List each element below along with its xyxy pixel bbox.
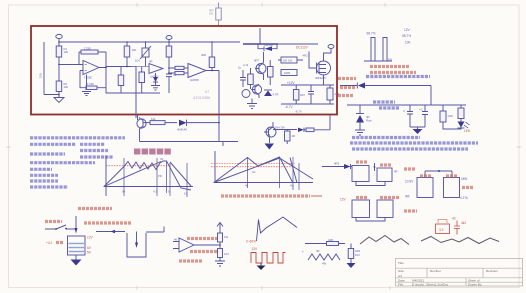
label 98.7% [367,32,376,36]
resistor R16 [285,130,296,145]
resistor R14 [293,85,305,104]
svg-text:10k: 10k [64,85,69,89]
battery BT1 [68,236,86,255]
winding W2 [377,165,392,182]
blue note row [352,136,420,139]
wire mid rail [281,84,334,86]
svg-text:43: 43 [452,217,456,221]
chart1 waveform [104,161,191,190]
chart2 axis [214,151,314,183]
blue note output ripple [366,75,430,78]
svg-text:4.1k: 4.1k [243,63,249,67]
svg-text:Size: Size [398,269,404,273]
svg-text:24R: 24R [448,114,453,118]
diode D2 IN4148 [258,43,277,51]
svg-text:+4.2: +4.2 [46,241,53,245]
resistor R17 [304,115,330,132]
wire tap to op-amp [59,64,83,66]
resistor R15 [327,85,339,104]
svg-text:4R9: 4R9 [334,162,340,166]
wire load loop [443,105,461,129]
label 4W filter [322,262,327,266]
label title (violet) [134,149,171,155]
svg-text:4R7: 4R7 [254,59,260,63]
diode D-W1 feed [322,162,352,170]
diode D4 [356,105,372,130]
chart2 red dashed levels [211,164,295,167]
blue note row 2 [350,141,478,144]
svg-text:104: 104 [135,59,140,63]
label EN [388,58,392,62]
wire drop x219 [218,115,220,142]
ground (R21) [215,261,225,266]
resistor R20 [218,233,229,249]
svg-text:15V: 15V [39,73,43,78]
svg-text:Number: Number [430,269,441,273]
ground (op-amp) [82,75,91,96]
chart2 waveform [214,157,313,183]
red capacitor [452,217,466,235]
svg-text:IN4148: IN4148 [264,43,273,47]
label DC112V (red) [296,46,309,50]
svg-text:4W: 4W [322,262,327,266]
diode D-row 4N4148 [177,120,219,132]
svg-text:4R: 4R [316,249,320,253]
svg-text:40: 40 [245,184,249,188]
LED D5 [458,122,471,134]
note list line 8 [30,185,68,188]
label 4R filter [316,249,320,253]
transistor Q4 [137,115,146,142]
svg-text:1W: 1W [209,12,213,16]
resistor R5 [124,42,136,67]
svg-text:4R: 4R [394,170,398,174]
svg-text:File:: File: [398,283,404,287]
capacitor C5 [419,105,428,127]
resistor R4 (lower feedback) [80,71,106,90]
power VCC1 [56,34,62,46]
svg-text:4k2: 4k2 [461,221,466,225]
wire stage2 input [131,66,149,68]
jar electrode [96,227,164,258]
wire [58,57,60,81]
svg-text:98.7%: 98.7% [367,32,376,36]
svg-text:Revision: Revision [486,269,498,273]
svg-text:4.17k: 4.17k [460,196,468,200]
square wave (red) [251,253,286,264]
label 12V [404,28,411,32]
capacitor C3 [308,85,314,104]
resistor R6 [118,67,124,94]
wire gate drive [303,52,317,69]
chart1 tick labels [122,157,188,196]
op-amp U3 [188,64,206,83]
ground (filter) [347,263,356,268]
blue link label 2 [379,106,399,109]
capacitor C1 [166,67,177,94]
red label +4.2 [46,241,64,245]
wire top rail [58,41,240,43]
chart1 gridlines [124,158,187,197]
svg-text:100 1W: 100 1W [283,59,293,63]
svg-text:1W: 1W [224,235,229,239]
svg-text:4V: 4V [160,157,164,161]
resistor R10 [268,60,274,85]
svg-text:46R: 46R [201,53,206,57]
capacitor C4 [403,105,413,127]
wire W3-W4 bottom [356,218,385,222]
svg-text:A4: A4 [398,274,402,278]
op-amp U1 TL082 [83,61,99,80]
svg-text:12V: 12V [252,247,259,251]
wire left 15V rail [39,42,60,95]
svg-text:LED: LED [464,129,471,133]
waveform zigzag left [360,236,409,245]
wire U4 output [194,244,221,246]
note list line 3b [80,155,113,158]
ground (battery) [71,255,82,266]
power arrow (rail) [217,223,223,234]
svg-text:Rule: Rule [366,119,372,123]
blue note row 3 [352,147,468,150]
capacitor C2 [238,66,246,88]
wire U3 output [206,70,219,114]
diode D6 [340,83,431,106]
diode D-out [298,128,304,132]
note list line 6 [30,174,58,177]
svg-text:10k: 10k [64,50,69,54]
resistor R7 [139,67,145,94]
note list line 7 [30,179,58,182]
power VCC2 [166,36,172,47]
capacitor C-trim 104 [135,42,151,67]
red label charger right [462,186,474,189]
svg-text:MW: MW [462,177,468,181]
resistor R22 [327,238,339,246]
resistor R1 [56,46,68,57]
label AT013396 (violet) [193,96,210,100]
resistor R9 [201,42,215,71]
resistor R23 [348,244,360,264]
label 98.7% right [402,34,411,38]
winding W1 [352,162,369,182]
red note (ripple) [370,71,416,74]
svg-text:4R: 4R [149,60,153,64]
svg-text:IRF3205: IRF3205 [315,76,326,80]
svg-text:0~60%: 0~60% [246,240,256,244]
resistor R12 box [278,57,303,63]
svg-text:10.5V: 10.5V [405,180,414,184]
svg-text:4): 4) [290,184,293,188]
red note U4 top [187,237,217,240]
svg-text:10k: 10k [132,48,137,52]
svg-text:AV: AV [252,170,256,174]
red label 12V sq [252,247,259,251]
svg-text:+12V: +12V [287,81,295,85]
svg-text:04: 04 [122,190,126,194]
svg-text:LM358: LM358 [190,78,199,82]
ground (zener) [151,82,160,90]
mosfet Q1 IRF3205 [278,44,331,85]
resistor R-row [143,117,177,125]
red note switch line1 [78,207,112,210]
label MW [462,177,468,181]
red note (input/output) [370,65,410,68]
svg-text:10k: 10k [151,117,156,121]
ground (C4 C5) [410,127,425,134]
wire op-amp output [99,67,136,69]
svg-text:-6.7V: -6.7V [285,105,293,109]
svg-text:42R: 42R [328,238,333,242]
red label MW 6.7V [338,94,354,97]
wire drop x136 [135,67,137,119]
svg-text:2N4.7W: 2N4.7W [275,126,285,130]
red highlight box [31,26,337,115]
winding W5 [417,176,433,198]
label 12V red [340,198,347,202]
op-amp U4 [173,238,194,253]
ground (square wave) [257,263,266,270]
red label 5V [87,251,92,255]
label 4R [394,170,398,174]
svg-text:DC112V: DC112V [296,46,309,50]
red note regulator [179,259,203,262]
red label charged [404,209,417,212]
red note 12V supply [84,221,131,224]
wire bold bus [243,43,278,45]
transistor Q5 [264,122,285,139]
wire main output rail [347,104,466,106]
svg-text:+: + [302,250,304,254]
svg-text:Drawn By:: Drawn By: [468,283,482,287]
svg-text:PD: PD [158,174,162,178]
winding W6 [444,176,460,198]
svg-text:120R: 120R [284,71,291,75]
transistor Q3 [251,84,262,98]
svg-text:EN: EN [388,58,392,62]
red label 6V [87,246,92,250]
svg-text:4R2: 4R2 [303,54,309,58]
resistor R3 (top feedback) [79,46,106,88]
svg-text:WF: WF [405,195,410,199]
resistor R13 box [281,70,297,76]
svg-text:4.3: 4.3 [153,190,157,194]
svg-text:172R: 172R [84,46,91,50]
label -6.7V lower [295,110,302,114]
label 10.5V [405,180,414,184]
svg-text:98.7%: 98.7% [402,34,411,38]
red label 6-16V [340,86,356,89]
wire Q5 out [273,129,297,131]
power VCC3 [328,45,334,49]
resistor R8 [166,46,172,67]
wire battery feed arrow [75,216,78,234]
triangle wave [308,254,340,260]
svg-text:103: 103 [224,252,229,256]
red label 3.4 5V [338,77,356,80]
svg-text:TL082: TL082 [84,76,92,80]
svg-text:10: 10 [184,192,188,196]
waveform zigzag right [421,237,499,244]
wire horizontal y141.5 [140,142,239,147]
wire filter top [305,243,345,245]
red label 0-60% [246,240,256,244]
svg-text:A7: A7 [205,90,209,94]
resistor R2 [56,81,68,92]
svg-text:C: C [403,109,405,113]
transistor Q2 [254,52,266,80]
label soft-start (red) [221,194,322,197]
ground (Q5) [265,139,275,150]
zener D1 [153,73,158,82]
svg-text:100: 100 [405,41,411,45]
note list line 2 [30,143,105,146]
red label charger top [404,167,416,170]
svg-text:E:\study\..\Sheet1.SchDoc: E:\study\..\Sheet1.SchDoc [412,283,449,287]
chart1 axis [104,156,194,197]
resistor R18 [440,111,453,122]
ground (D4) [355,130,365,135]
wire top entry [259,28,261,44]
label +12V [287,81,295,85]
svg-text:12V: 12V [404,28,411,32]
svg-text:174R: 174R [87,82,94,86]
chart2 tick labels [245,170,293,188]
red label 12V [87,236,94,240]
label A7 (violet) [205,90,209,94]
pulse waveform [364,38,392,62]
waveform spike [257,217,298,241]
label 100 [405,41,411,45]
label WF [405,195,410,199]
title block [396,259,523,287]
winding W3 [352,198,370,218]
note list line 3 [30,151,108,155]
svg-text:-6.7V: -6.7V [295,110,302,114]
ground (Q3) [247,99,257,109]
red measure box [436,220,450,234]
wire bottom rail [106,88,160,93]
ground (left divider) [54,92,64,103]
transistor Q3b [242,90,250,98]
svg-text:4N4148: 4N4148 [177,128,187,132]
wire lower rail [281,103,334,105]
blue link label [373,100,395,103]
red note switch left [45,220,62,223]
svg-text:103: 103 [300,93,305,97]
wire charger link [425,170,452,178]
resistor R11 [243,63,253,89]
resistor R-in2 [168,72,188,75]
note list line 1 [30,136,125,139]
chart1 red dashed level [106,165,170,167]
chart2 gridlines [248,157,300,190]
note list line 4 [30,161,95,164]
note list line 5 [30,168,52,171]
resistor R21 [218,249,230,262]
red note U4 bottom [190,250,219,253]
svg-text:12V: 12V [87,236,94,240]
resistor R-in1 [168,66,188,69]
svg-text:3.3: 3.3 [439,228,444,232]
label 4.17k [460,196,468,200]
label -6.7V [285,105,293,109]
resistor R19 [458,108,464,119]
comparator U2 [149,60,163,79]
svg-text:40: 40 [174,238,178,242]
switch SW1 [45,225,76,230]
wire W1-W2 bottom [356,182,385,186]
svg-text:103: 103 [355,253,360,257]
svg-text:Title: Title [398,261,404,265]
svg-text:4.7R: 4.7R [273,93,279,97]
winding W4 [377,198,399,218]
diode D3 [264,90,278,97]
svg-text:4R: 4R [292,134,296,138]
svg-text:12V: 12V [340,198,347,202]
node tick W1-W2 [374,163,376,171]
svg-text:+C: +C [419,108,423,112]
resistor R-top (above box) [209,3,221,26]
svg-text:AT013396: AT013396 [193,96,210,100]
label plus [302,250,304,254]
